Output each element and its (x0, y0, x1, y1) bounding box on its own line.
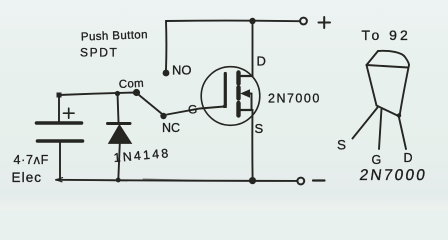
svg-text:NC: NC (162, 121, 180, 135)
channel bar top (drain) (236, 73, 240, 84)
op: MOSFET Q1 circle (201, 67, 260, 126)
capacitor C1 bottom plate (38, 139, 83, 143)
svg-text:SPDT: SPDT (80, 46, 118, 60)
node NO (163, 70, 170, 77)
channel bar bottom (source) (236, 103, 240, 116)
TO-92 package body (367, 51, 379, 65)
svg-text:2N7000: 2N7000 (268, 92, 321, 106)
body to source connector (251, 94, 253, 111)
label minus (313, 179, 325, 181)
wire: cap top to Com (59, 93, 136, 96)
node: source junction on bottom rail (249, 177, 256, 184)
TO-92 lead S (353, 108, 378, 139)
arrow tick at left end of bottom rail (56, 178, 63, 182)
svg-text:Elec: Elec (12, 170, 43, 185)
body tap with arrow (244, 93, 252, 95)
node: drain junction on top rail (249, 18, 255, 24)
wire: source vertical to bottom rail (251, 110, 253, 180)
node Com (133, 89, 140, 96)
gate corner (224, 105, 225, 107)
terminal - (open circle) (297, 178, 304, 185)
capacitor C1 top plate (37, 121, 82, 125)
node: diode top junction (115, 91, 120, 96)
wire: drain vertical (252, 21, 254, 76)
gate bar (224, 74, 227, 105)
svg-text:NO: NO (172, 63, 192, 78)
svg-text:S: S (337, 138, 346, 153)
svg-text:D: D (404, 151, 413, 165)
svg-text:S: S (255, 121, 264, 136)
svg-text:4·7ʌF: 4·7ʌF (14, 153, 49, 167)
TO-92 lead D (399, 118, 406, 150)
wire: NC to gate (167, 107, 224, 115)
svg-text:Com: Com (119, 78, 145, 91)
svg-text:2N7000: 2N7000 (358, 167, 428, 184)
terminal + (open circle) (300, 18, 307, 25)
node: corner at cap top (57, 93, 62, 98)
channel bar middle (body) (236, 87, 240, 98)
wire: bottom rail (56, 180, 297, 181)
svg-text:G: G (188, 103, 197, 117)
TO-92 lead G (379, 109, 382, 150)
drain tap (241, 75, 253, 77)
svg-text:Push Button: Push Button (81, 29, 148, 43)
wire: NO drop vertical (165, 21, 167, 70)
svg-text:G: G (372, 153, 382, 167)
wire overlap artifact on bottom rail (143, 179, 206, 181)
capacitor + polarity mark (64, 108, 75, 118)
wire: top rail from NO corner to + terminal (166, 20, 299, 23)
switch lever Com to NC (139, 95, 162, 114)
svg-text:To 92: To 92 (362, 27, 411, 43)
label + (319, 17, 331, 28)
svg-text:D: D (257, 54, 266, 69)
wire: cap top vertical (58, 95, 60, 121)
node NC (160, 113, 166, 119)
source tap (241, 109, 253, 111)
wire: cap bottom vertical (59, 141, 61, 180)
diode D1 1N4148 (118, 94, 119, 123)
